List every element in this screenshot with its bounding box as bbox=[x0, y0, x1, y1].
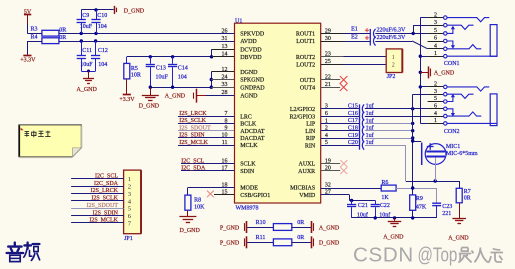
power +3.3V mid bbox=[123, 94, 131, 96]
resistor R8 bbox=[185, 195, 191, 210]
power port D_GND (R11 row) bbox=[311, 236, 313, 248]
svg-text:+3.3V: +3.3V bbox=[20, 58, 36, 64]
capacitor C9 bbox=[81, 10, 83, 19]
junction CON1 pin1 bbox=[419, 55, 422, 58]
svg-text:JP1: JP1 bbox=[124, 236, 133, 242]
svg-text:AVDD: AVDD bbox=[240, 39, 257, 45]
capacitor C19 1uf bbox=[321, 138, 360, 140]
svg-text:DBVDD: DBVDD bbox=[240, 55, 262, 61]
svg-text:13: 13 bbox=[222, 44, 228, 50]
svg-text:LOUT2: LOUT2 bbox=[296, 62, 315, 68]
svg-text:11: 11 bbox=[222, 140, 228, 146]
pin 15 stub + no-connect bbox=[214, 194, 235, 196]
wire C11 C12 join bbox=[81, 71, 95, 73]
svg-text:I2S_LRCK: I2S_LRCK bbox=[91, 188, 119, 194]
capacitor C13 bbox=[150, 57, 152, 64]
wire C18 out bbox=[365, 130, 413, 132]
svg-text:MODE: MODE bbox=[240, 186, 258, 192]
svg-text:JP2: JP2 bbox=[387, 74, 396, 80]
wire C17 out bbox=[365, 123, 413, 125]
junction C13 top bbox=[149, 55, 152, 58]
resistor R11 0R bbox=[247, 242, 273, 244]
svg-text:LIN: LIN bbox=[305, 129, 316, 135]
wire net I2S_SDIN to JP1 bbox=[71, 215, 124, 217]
pin CON2.6 bbox=[428, 108, 444, 110]
svg-text:220uF/6.3V: 220uF/6.3V bbox=[377, 27, 407, 33]
capacitor E1 220uF bbox=[344, 33, 371, 35]
pin 22 stub + no-connect bbox=[321, 79, 341, 81]
wire ground pins riser bbox=[211, 72, 213, 87]
pin 25 stub bbox=[321, 64, 344, 66]
svg-text:SDIN: SDIN bbox=[240, 169, 255, 175]
resistor R9 bbox=[410, 195, 416, 210]
resistor R10 0R bbox=[247, 227, 273, 229]
jack CON1 body bbox=[490, 25, 497, 57]
svg-text:12: 12 bbox=[222, 67, 228, 73]
ground A_GND bottom mid bbox=[394, 218, 396, 221]
svg-text:LRC: LRC bbox=[240, 115, 252, 121]
capacitor C23 bbox=[432, 202, 441, 204]
svg-text:4: 4 bbox=[434, 111, 437, 117]
pin CON1.5 bbox=[428, 33, 444, 35]
junction C11 top bbox=[80, 39, 83, 42]
svg-text:I2S_SDOUT: I2S_SDOUT bbox=[179, 125, 211, 131]
wire CON2 row2 bbox=[420, 86, 427, 88]
junction V1 C18 bbox=[411, 129, 414, 132]
wire to MIC plus bbox=[413, 141, 422, 143]
svg-text:8: 8 bbox=[225, 118, 228, 124]
jack CON2 contact row3 bbox=[447, 94, 473, 98]
svg-text:D_GND: D_GND bbox=[139, 103, 160, 109]
svg-text:D_GND: D_GND bbox=[180, 228, 201, 234]
svg-text:0R: 0R bbox=[59, 28, 66, 34]
svg-text:10uF: 10uF bbox=[80, 62, 93, 68]
wire net I2S_MCLK bbox=[178, 145, 235, 147]
svg-text:R3: R3 bbox=[31, 26, 38, 32]
pin CON1.3 bbox=[428, 25, 444, 27]
svg-text:I2S_SCLK: I2S_SCLK bbox=[91, 196, 118, 202]
svg-text:18: 18 bbox=[222, 182, 228, 188]
svg-text:6: 6 bbox=[434, 36, 437, 42]
wire net I2S_LRCK bbox=[178, 116, 235, 118]
svg-text:I2C_SDA: I2C_SDA bbox=[181, 165, 206, 171]
junction A_GND tap bbox=[419, 71, 422, 74]
wire SPKVDD rail (5V row) bbox=[27, 33, 42, 35]
jack CON2 body bbox=[490, 94, 497, 126]
capacitor C15 1uf bbox=[321, 108, 360, 110]
svg-text:C22: C22 bbox=[380, 203, 390, 209]
svg-text:0R: 0R bbox=[59, 35, 66, 41]
svg-text:I2S_SDIN: I2S_SDIN bbox=[179, 133, 205, 139]
jack CON2 switch arrow down bbox=[447, 109, 453, 115]
svg-text:AUXR: AUXR bbox=[298, 169, 315, 175]
svg-text:3: 3 bbox=[434, 20, 437, 26]
wire DCVDD/DBVDD rail bbox=[127, 56, 212, 58]
svg-text:@Top: @Top bbox=[418, 243, 458, 266]
svg-text:WM8978: WM8978 bbox=[236, 205, 259, 211]
svg-text:R9: R9 bbox=[416, 196, 423, 202]
pin 29 stub bbox=[321, 33, 344, 35]
ground D_GND under R8 bbox=[187, 210, 189, 216]
svg-text:I2S_SCLK: I2S_SCLK bbox=[179, 118, 206, 124]
svg-text:C11: C11 bbox=[82, 48, 92, 54]
wire DGND rail bbox=[150, 87, 211, 89]
svg-text:10uF: 10uF bbox=[156, 74, 169, 80]
svg-text:SPKVDD: SPKVDD bbox=[240, 32, 265, 38]
note text 单点接地 bbox=[25, 131, 51, 137]
wire CON2 row3 feed bbox=[413, 94, 428, 96]
pin CON1.6 bbox=[428, 41, 444, 43]
svg-text:RIN: RIN bbox=[305, 144, 316, 150]
svg-text:28: 28 bbox=[222, 90, 228, 96]
wire mic input bus V1 bbox=[412, 94, 414, 195]
wire LOUT2 to JP2 bbox=[344, 64, 387, 66]
svg-text:VMID: VMID bbox=[299, 193, 316, 199]
svg-text:31: 31 bbox=[222, 36, 228, 42]
junction V1 MICBIAS bbox=[411, 186, 414, 189]
wire MICBIAS to R6 bbox=[321, 188, 382, 190]
svg-text:C15: C15 bbox=[348, 104, 358, 110]
junction C10 bottom bbox=[94, 32, 97, 35]
svg-text:MCLK: MCLK bbox=[240, 143, 258, 149]
svg-text:32: 32 bbox=[325, 182, 331, 188]
pin 24 stub bbox=[211, 79, 234, 81]
connector JP2 bbox=[386, 49, 402, 73]
svg-text:3: 3 bbox=[434, 89, 437, 95]
svg-text:ROUT1: ROUT1 bbox=[296, 32, 315, 38]
connector JP1 bbox=[124, 170, 141, 234]
resistor R6 bbox=[381, 185, 396, 191]
svg-text:MIC1: MIC1 bbox=[446, 144, 460, 150]
junction E1 riser bbox=[412, 32, 415, 35]
svg-text:C21: C21 bbox=[358, 203, 368, 209]
wire net I2S_MCLK to JP1 bbox=[71, 222, 124, 224]
svg-text:R6: R6 bbox=[381, 180, 388, 186]
wire CON1 row1 bbox=[420, 56, 427, 58]
wire 5V stem bbox=[27, 14, 29, 24]
wire R9 bottom bbox=[412, 210, 414, 218]
svg-text:104: 104 bbox=[178, 74, 187, 80]
pin 30 stub bbox=[321, 41, 344, 43]
wire C20 out bbox=[365, 145, 406, 147]
svg-text:GNDPAD: GNDPAD bbox=[240, 85, 265, 91]
svg-text:U1: U1 bbox=[235, 18, 242, 24]
svg-text:CSB/GPIO1: CSB/GPIO1 bbox=[240, 193, 270, 199]
ground A_GND under R7 bbox=[459, 203, 461, 218]
svg-text:1: 1 bbox=[128, 176, 131, 183]
svg-text:BCLK: BCLK bbox=[240, 122, 257, 128]
power port A_GND mid right bbox=[420, 72, 428, 74]
svg-text:2: 2 bbox=[128, 184, 131, 191]
svg-text:10K: 10K bbox=[194, 204, 205, 210]
svg-text:E2: E2 bbox=[351, 34, 358, 40]
wire CON1 sleeve row1 bbox=[447, 55, 497, 57]
svg-text:A_GND: A_GND bbox=[319, 225, 340, 231]
svg-text:AUXL: AUXL bbox=[299, 162, 316, 168]
jack CON1 contact row3 bbox=[447, 25, 473, 29]
svg-text:SPKGND: SPKGND bbox=[240, 78, 265, 84]
pin CON2.5 bbox=[428, 101, 444, 103]
svg-text:ADCDAT: ADCDAT bbox=[240, 129, 265, 135]
svg-text:P_GND: P_GND bbox=[220, 225, 240, 231]
jack CON1 ring contact row4 bbox=[447, 45, 481, 49]
wire riser to CON1 pin3 bbox=[413, 25, 415, 33]
wire AVDD rail (3.3V row) bbox=[27, 41, 42, 43]
wire DCVDD riser bbox=[211, 49, 213, 57]
svg-text:C9: C9 bbox=[82, 13, 89, 19]
svg-text:I2C_SDA: I2C_SDA bbox=[94, 181, 119, 187]
svg-text:10R: 10R bbox=[131, 73, 141, 79]
resistor R5 bbox=[126, 57, 128, 64]
svg-text:C12: C12 bbox=[98, 48, 108, 54]
svg-text:C20: C20 bbox=[348, 140, 358, 146]
pin 13 stub bbox=[212, 49, 235, 51]
pin 19 stub + no-connect bbox=[321, 163, 341, 165]
op-amp U1 WM8978 codec body bbox=[235, 23, 321, 203]
svg-text:C18: C18 bbox=[348, 126, 358, 132]
svg-text:5: 5 bbox=[434, 96, 437, 102]
svg-text:4: 4 bbox=[434, 44, 437, 50]
svg-text:24: 24 bbox=[222, 74, 228, 80]
wire ROUT2 to JP2 bbox=[344, 56, 387, 58]
svg-text:I2S_MCLK: I2S_MCLK bbox=[89, 218, 118, 224]
capacitor C16 1uf bbox=[321, 116, 360, 118]
jack CON2 ring contact row4 bbox=[447, 112, 481, 116]
svg-text:0R: 0R bbox=[297, 235, 304, 241]
svg-text:SCLK: SCLK bbox=[240, 162, 256, 168]
capacitor C11 bbox=[81, 41, 83, 55]
wire net I2S_SDIN bbox=[178, 137, 235, 139]
svg-text:1uf: 1uf bbox=[366, 132, 374, 139]
svg-text:9: 9 bbox=[225, 126, 228, 132]
pin CON2.3 bbox=[428, 94, 444, 96]
junction C14 top bbox=[171, 55, 174, 58]
svg-text:C23: C23 bbox=[442, 204, 452, 210]
svg-text:I2S_SDIN: I2S_SDIN bbox=[93, 210, 119, 216]
resistor R3 bbox=[42, 30, 59, 36]
pin 23 stub bbox=[321, 56, 344, 58]
capacitor C20 1uf bbox=[321, 145, 360, 147]
junction C12 top bbox=[94, 39, 97, 42]
svg-text:L2/GPIO2: L2/GPIO2 bbox=[290, 107, 315, 113]
wire V2 mic return bbox=[405, 145, 407, 181]
junction C9 bottom bbox=[80, 32, 83, 35]
capacitor C17 1uf bbox=[321, 123, 360, 125]
svg-text:DACDAT: DACDAT bbox=[240, 136, 265, 142]
svg-text:C13: C13 bbox=[156, 66, 166, 72]
svg-text:R2/GPIO3: R2/GPIO3 bbox=[290, 114, 316, 120]
resistor R4 bbox=[42, 38, 59, 44]
wire CON2 sleeve row1 bbox=[447, 122, 497, 124]
capacitor C10 bbox=[96, 10, 98, 19]
svg-text:33: 33 bbox=[222, 82, 228, 88]
jack CON2 switch arrow up bbox=[447, 95, 453, 101]
svg-text:C19: C19 bbox=[348, 133, 358, 139]
svg-text:P_GND: P_GND bbox=[220, 241, 240, 247]
wire E1 to CON1 pin5 bbox=[375, 33, 427, 35]
jack CON1 switch arrow down bbox=[447, 41, 453, 47]
capacitor C18 1uf bbox=[321, 130, 360, 132]
pin 12 stub bbox=[211, 71, 234, 73]
svg-text:MICBIAS: MICBIAS bbox=[290, 186, 315, 192]
capacitor C22 bbox=[375, 200, 377, 204]
resistor R7 bbox=[459, 181, 461, 188]
pin 14 stub bbox=[212, 56, 235, 58]
wire AGND to pin 28 bbox=[206, 95, 235, 97]
svg-text:15: 15 bbox=[222, 190, 228, 196]
svg-text:104: 104 bbox=[98, 24, 107, 30]
junction CON2 pin2 bbox=[419, 85, 422, 88]
svg-text:1: 1 bbox=[392, 55, 395, 61]
svg-text:16: 16 bbox=[222, 158, 228, 164]
wire CON2 row1 bbox=[420, 123, 427, 125]
svg-text:47K: 47K bbox=[416, 205, 427, 211]
svg-text:CON2: CON2 bbox=[444, 129, 460, 135]
svg-text:0R: 0R bbox=[464, 195, 471, 201]
svg-text:DGND: DGND bbox=[240, 70, 258, 76]
svg-text:10uF: 10uF bbox=[80, 24, 93, 30]
svg-text:1: 1 bbox=[434, 51, 437, 57]
wire net I2C_SCL to JP1 bbox=[71, 178, 124, 180]
svg-text:221: 221 bbox=[442, 211, 451, 217]
svg-text:LOUT1: LOUT1 bbox=[296, 39, 315, 45]
svg-text:220uF/6.3V: 220uF/6.3V bbox=[377, 35, 407, 41]
svg-text:I2S_SDOUT: I2S_SDOUT bbox=[87, 203, 119, 209]
svg-text:A_GND: A_GND bbox=[448, 236, 469, 242]
pin CON1.1 bbox=[428, 56, 444, 58]
wire MODE to R8 bbox=[188, 187, 235, 189]
power +3.3V bbox=[27, 41, 29, 55]
note sticky bbox=[19, 125, 82, 157]
pin CON1.2 bbox=[428, 17, 444, 19]
svg-text:I2C_SCL: I2C_SCL bbox=[181, 158, 204, 164]
microphone MIC1 bbox=[421, 143, 423, 166]
junction V1 C15 bbox=[411, 107, 414, 110]
wire net I2C_SDA bbox=[181, 170, 235, 172]
jack CON2 tip contact row2 bbox=[447, 87, 489, 91]
svg-text:14: 14 bbox=[222, 52, 228, 58]
svg-text:C14: C14 bbox=[178, 66, 188, 72]
capacitor C12 bbox=[95, 41, 97, 55]
svg-text:0R: 0R bbox=[297, 220, 304, 226]
svg-text:CSDN: CSDN bbox=[353, 243, 414, 266]
svg-text:R4: R4 bbox=[31, 35, 38, 41]
jack CON1 switch arrow up bbox=[447, 27, 453, 33]
svg-text:OUT3: OUT3 bbox=[300, 78, 315, 84]
svg-text:17: 17 bbox=[222, 166, 228, 172]
power port D_GND top bbox=[114, 6, 116, 14]
pin CON1.4 bbox=[428, 48, 444, 50]
svg-text:E1: E1 bbox=[351, 27, 358, 33]
svg-text:D_GND: D_GND bbox=[124, 8, 145, 14]
svg-text:+3.3V: +3.3V bbox=[119, 97, 135, 103]
svg-text:I2S_MCLK: I2S_MCLK bbox=[179, 140, 208, 146]
svg-text:D_GND: D_GND bbox=[319, 241, 340, 247]
wire net I2S_SDOUT bbox=[178, 130, 235, 132]
svg-text:C16: C16 bbox=[348, 111, 358, 117]
pin CON2.2 bbox=[428, 86, 444, 88]
title 音频 bbox=[7, 243, 40, 262]
svg-text:I2C_SCL: I2C_SCL bbox=[95, 174, 118, 180]
svg-text:R5: R5 bbox=[131, 66, 138, 72]
svg-text:1: 1 bbox=[434, 118, 437, 124]
wire net I2S_SCLK to JP1 bbox=[71, 200, 124, 202]
svg-text:2: 2 bbox=[434, 12, 437, 18]
svg-text:6: 6 bbox=[434, 104, 437, 110]
pin 20 stub + no-connect bbox=[321, 170, 341, 172]
svg-text:OUT4: OUT4 bbox=[300, 85, 315, 91]
svg-text:2: 2 bbox=[392, 62, 395, 68]
svg-text:R10: R10 bbox=[256, 220, 266, 226]
svg-text:10: 10 bbox=[222, 133, 228, 139]
wire net I2C_SDA to JP1 bbox=[71, 186, 124, 188]
svg-text:R8: R8 bbox=[194, 198, 201, 204]
wire MIC stem bbox=[435, 158, 437, 181]
pin CON2.4 bbox=[428, 116, 444, 118]
svg-text:104: 104 bbox=[98, 62, 107, 68]
svg-text:A_GND: A_GND bbox=[434, 70, 455, 76]
wire net I2S_LRCK to JP1 bbox=[71, 193, 124, 195]
wire R6 to C23 bbox=[396, 188, 437, 190]
svg-text:CON1: CON1 bbox=[444, 61, 460, 67]
svg-text:R11: R11 bbox=[256, 235, 266, 241]
wire net I2C_SCL bbox=[181, 163, 235, 165]
pin 21 stub + no-connect bbox=[321, 87, 341, 89]
wire C16 to CON2 pin4 bbox=[365, 116, 428, 118]
svg-text:C10: C10 bbox=[97, 13, 107, 19]
wire net I2S_SDOUT to JP1 bbox=[71, 208, 124, 210]
wire jack ground bus bbox=[420, 18, 422, 124]
svg-text:A_GND: A_GND bbox=[77, 87, 98, 93]
svg-text:MIC-6*5mm: MIC-6*5mm bbox=[446, 151, 478, 157]
pin 33 stub bbox=[211, 87, 234, 89]
svg-text:7: 7 bbox=[225, 111, 228, 117]
wire VMID bbox=[321, 194, 350, 196]
capacitor E2 220uF bbox=[344, 41, 371, 43]
junction C10 top bbox=[94, 8, 97, 11]
svg-text:AGND: AGND bbox=[240, 93, 258, 99]
svg-text:C17: C17 bbox=[348, 118, 358, 124]
pin CON2.1 bbox=[428, 123, 444, 125]
wire D_GND top rail bbox=[81, 9, 113, 11]
ground D_GND mid bbox=[150, 87, 152, 95]
svg-text:1K: 1K bbox=[381, 195, 389, 201]
wire CON1 row2 bbox=[420, 17, 427, 19]
jack CON1 tip contact row2 bbox=[447, 18, 489, 22]
svg-text:1uf: 1uf bbox=[366, 110, 374, 117]
capacitor C21 bbox=[350, 199, 353, 202]
svg-text:26: 26 bbox=[222, 28, 228, 34]
svg-text:A_GND: A_GND bbox=[383, 235, 404, 241]
capacitor C14 bbox=[172, 57, 174, 64]
svg-text:5: 5 bbox=[434, 28, 437, 34]
svg-text:A_GND: A_GND bbox=[165, 94, 186, 100]
junction V1 C17 bbox=[411, 122, 414, 125]
wire E2 to CON1 pin4 bbox=[375, 41, 412, 43]
junction V1 C19 bbox=[411, 136, 414, 139]
junction mic stem bbox=[434, 179, 437, 182]
svg-text:RIP: RIP bbox=[306, 136, 316, 142]
svg-text:R7: R7 bbox=[464, 189, 471, 195]
svg-text:2: 2 bbox=[434, 82, 437, 88]
wire C15 to CON2 pin6 bbox=[365, 108, 428, 110]
svg-text:LIP: LIP bbox=[306, 122, 316, 128]
svg-text:I2S_LRCK: I2S_LRCK bbox=[179, 111, 207, 117]
wire C19 out bbox=[365, 138, 413, 140]
wire net I2S_SCLK bbox=[178, 123, 235, 125]
svg-text:ROUT2: ROUT2 bbox=[296, 55, 315, 61]
ground A_GND under C11 C12 bbox=[83, 78, 94, 80]
